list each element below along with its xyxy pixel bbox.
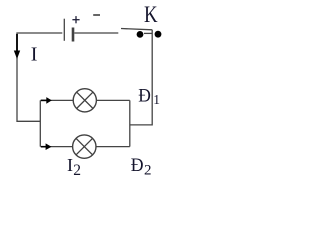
svg-text:1: 1 — [153, 92, 160, 107]
svg-text:I: I — [67, 155, 73, 175]
svg-text:2: 2 — [73, 162, 81, 179]
svg-text:Đ: Đ — [138, 86, 151, 107]
svg-text:Đ: Đ — [131, 156, 144, 176]
svg-text:I: I — [31, 43, 38, 65]
svg-text:2: 2 — [144, 163, 152, 179]
svg-text:K: K — [144, 2, 158, 27]
